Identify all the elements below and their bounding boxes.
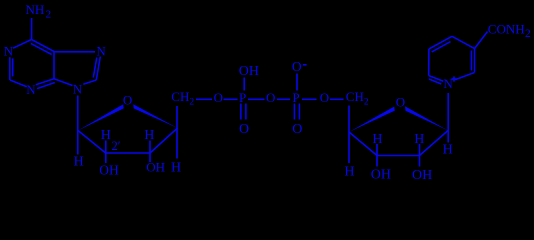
double bond C4=N3 — [36, 79, 54, 85]
bond O-P1 — [224, 98, 238, 100]
svg-text:O: O — [396, 94, 405, 109]
double bond C3=C2 (pyridinium) — [474, 49, 476, 73]
svg-text:P: P — [239, 90, 246, 105]
svg-text:H: H — [443, 142, 453, 157]
bond C4-C3 (pyridinium) — [452, 36, 475, 48]
minus superscript — [303, 64, 307, 66]
bond C2'-C1' (right ribose) — [420, 131, 449, 156]
svg-text:H: H — [344, 164, 354, 179]
bond P1-OH — [243, 78, 245, 91]
bond C2'-C3' — [106, 152, 150, 154]
svg-text:H: H — [414, 132, 424, 147]
svg-text:O: O — [239, 122, 249, 137]
svg-text:OH: OH — [99, 163, 119, 178]
bond N3-C2 — [10, 80, 27, 87]
bond C5-C6 (pyridinium) — [428, 49, 430, 76]
bond O-P2 — [277, 98, 290, 100]
double bond C6=C5 — [32, 40, 55, 52]
double bond P2=O — [293, 104, 295, 120]
double bond N7=C8 — [96, 57, 100, 81]
svg-text:O: O — [292, 59, 302, 74]
bond C3'-C2' (right ribose) — [377, 155, 420, 157]
svg-text:O: O — [292, 122, 302, 137]
svg-text:N: N — [96, 43, 106, 58]
svg-text:2′: 2′ — [112, 139, 121, 153]
bond C8-N9 — [83, 80, 96, 84]
svg-text:OH: OH — [146, 159, 165, 174]
bond P2-O ester — [302, 98, 317, 100]
double bond C4=C5 (pyridinium) — [429, 36, 452, 49]
svg-text:H: H — [372, 132, 382, 147]
svg-text:N: N — [443, 76, 453, 91]
bond CH2-C4'-H vertical — [176, 106, 178, 159]
bond N1(+)-C1'-H vertical — [447, 93, 449, 143]
svg-text:O: O — [123, 92, 132, 107]
svg-text:O: O — [320, 90, 329, 105]
svg-text:OH: OH — [239, 64, 259, 79]
bond P2-O(-) — [296, 74, 298, 91]
bond C4'-C3' (right ribose) — [349, 132, 377, 156]
svg-text:H: H — [171, 160, 181, 175]
bond CH2-C4'-H vertical (right ribose) — [348, 106, 350, 164]
svg-text:N: N — [26, 82, 36, 97]
bond C5-C4 fused — [53, 52, 55, 79]
svg-text:OH: OH — [371, 167, 391, 182]
bond P1-O bridge — [248, 98, 265, 100]
wedge bond O-C1' (right ribose) — [405, 106, 448, 130]
bond H-C3'-OH vertical (right ribose) — [376, 144, 378, 167]
svg-text:O: O — [214, 90, 223, 105]
svg-text:H: H — [101, 128, 111, 143]
svg-text:H: H — [74, 155, 84, 170]
svg-text:P: P — [292, 90, 299, 105]
bond N1-C6 — [13, 40, 32, 49]
bond N9-C1' continuing to H — [77, 96, 79, 155]
double bond C2=N1 — [9, 57, 11, 80]
bond H-C2'-OH vertical (right ribose) — [419, 144, 421, 167]
double bond P1=O — [240, 104, 242, 120]
bond C5-N7 — [54, 51, 95, 53]
bond C2-N1 (pyridinium) — [455, 73, 475, 80]
bond C3-C(amide) — [475, 32, 488, 49]
svg-text:O: O — [266, 90, 275, 105]
wedge bond O-C4' — [133, 104, 177, 128]
bond H-C3'-OH vertical — [149, 141, 151, 163]
bond H-C2'-OH vertical — [105, 141, 107, 164]
bond N9-C4 — [54, 79, 73, 86]
svg-text:N: N — [73, 82, 83, 97]
svg-text:H: H — [144, 128, 154, 143]
bond NH2-C6 — [31, 18, 33, 40]
bond O-CH2 — [330, 98, 344, 100]
double bond C6=N1 (pyridinium) — [429, 76, 444, 82]
bond CH2-O ester — [196, 98, 212, 100]
wedge bond C4'-O (right ribose) — [349, 107, 395, 133]
bond C1'-C2' — [78, 131, 106, 154]
svg-text:N: N — [4, 44, 14, 59]
bond C3'-C4' — [150, 128, 178, 153]
plus superscript — [451, 78, 456, 80]
wedge bond C1'-O — [78, 104, 124, 130]
svg-text:OH: OH — [412, 168, 432, 183]
